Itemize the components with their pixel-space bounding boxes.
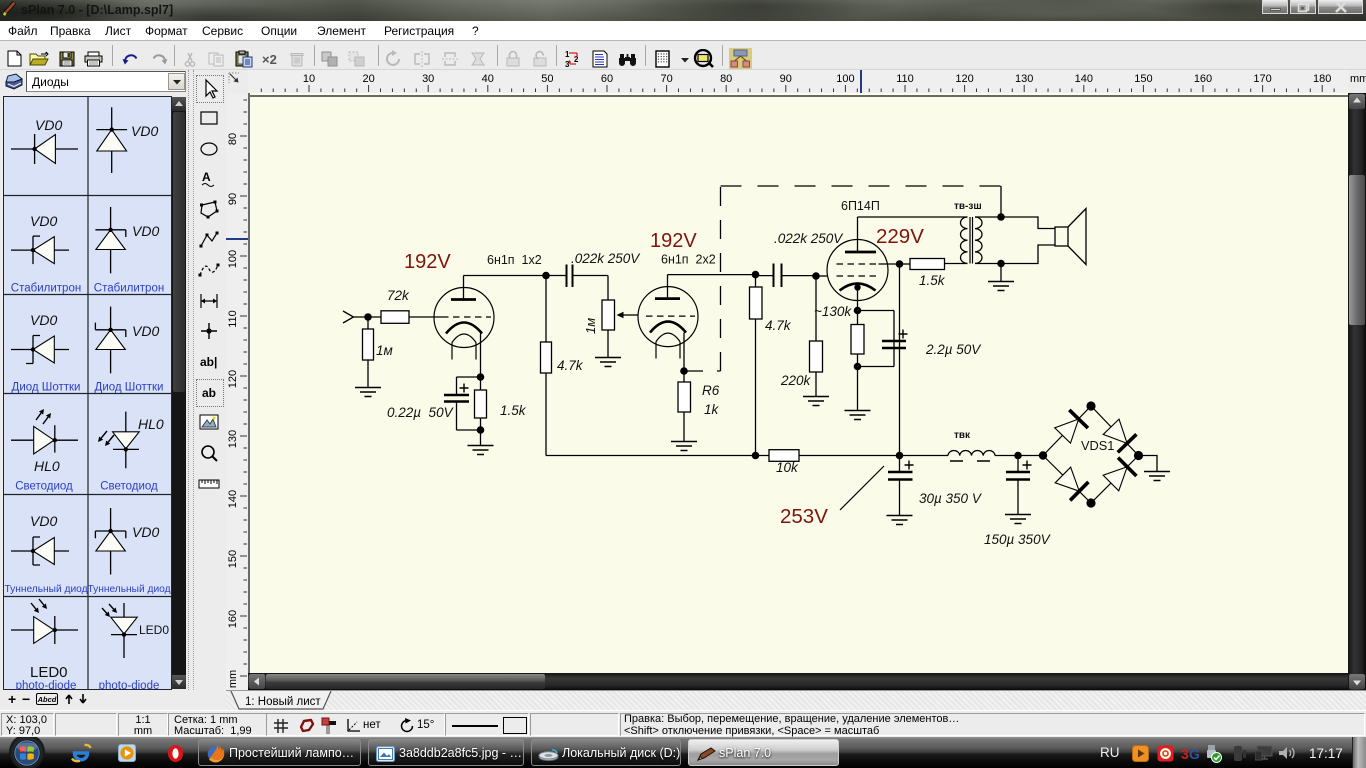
svg-text:220k: 220k — [780, 373, 812, 388]
panel bottom buttons — [0, 690, 230, 710]
bridge vertex nodes — [1039, 451, 1047, 459]
menu bar — [0, 21, 1366, 41]
window buttons — [1262, 0, 1288, 14]
secondary top wire — [975, 217, 1055, 229]
wire 72k to V1 grid — [409, 316, 442, 318]
ground (R6) — [671, 442, 697, 451]
svg-text:VD0: VD0 — [132, 323, 159, 339]
svg-text:60: 60 — [601, 73, 613, 85]
node F (V2 cathode) — [680, 367, 688, 375]
resistor 1.5k (V1 cathode) — [480, 377, 482, 390]
svg-text:Светодиод: Светодиод — [100, 480, 158, 492]
wire V1 plate to node B — [464, 275, 547, 277]
canvas v-scrollbar — [1348, 93, 1366, 690]
svg-text:photo-diode: photo-diode — [99, 680, 160, 690]
svg-text:VD0: VD0 — [35, 117, 62, 133]
svg-text:HL0: HL0 — [138, 416, 164, 432]
transformer TV-3SH primary — [961, 217, 968, 263]
svg-text:160: 160 — [227, 610, 239, 628]
svg-text:VDS1: VDS1 — [1081, 438, 1114, 453]
svg-text:LED0: LED0 — [139, 623, 169, 637]
svg-text:Стабилитрон: Стабилитрон — [94, 282, 164, 294]
svg-text:HL0: HL0 — [34, 458, 60, 474]
svg-text:6н1п 1x2: 6н1п 1x2 — [487, 253, 542, 267]
book icon — [4, 73, 24, 92]
tool column — [194, 70, 226, 690]
svg-text:140: 140 — [227, 490, 239, 508]
node I (130k bottom / cap) — [854, 363, 862, 371]
svg-text:180: 180 — [1313, 73, 1331, 85]
ground (130k) — [845, 411, 871, 420]
svg-text:VD0: VD0 — [30, 213, 57, 229]
resistor 1.5k screen — [900, 263, 911, 265]
svg-text:4.7k: 4.7k — [765, 318, 792, 333]
resistor 4.7k (V2 plate load) — [755, 275, 757, 287]
title bar — [0, 0, 1366, 21]
component panel background — [0, 93, 190, 690]
svg-text:.022k 250V: .022k 250V — [571, 251, 641, 266]
svg-text:1: Новый лист: 1: Новый лист — [245, 696, 321, 708]
svg-text:6П14П: 6П14П — [841, 199, 880, 213]
row1 left: diode VD0 — [11, 117, 78, 164]
row4 right: LED vertical — [98, 412, 164, 493]
svg-text:1k: 1k — [704, 402, 720, 417]
svg-text:192V: 192V — [404, 251, 451, 273]
svg-text:140: 140 — [1075, 73, 1093, 85]
canvas h-scrollbar — [248, 673, 1348, 690]
tray — [1100, 745, 1120, 760]
svg-text:90: 90 — [227, 193, 239, 205]
ground (1M) — [355, 388, 381, 397]
svg-text:120: 120 — [227, 370, 239, 388]
capacitor 0.22u 50V plates — [444, 394, 469, 397]
status bar — [0, 710, 1366, 737]
row3 right: schottky vertical — [95, 307, 164, 394]
diode D3 (left-bottom) — [1054, 466, 1089, 501]
row2 right: zener vertical — [94, 207, 164, 294]
node H (cathode 130k top) — [854, 307, 862, 315]
svg-text:1.5k: 1.5k — [919, 273, 946, 288]
svg-text:72k: 72k — [387, 288, 410, 303]
resistor R6 1k — [683, 371, 685, 382]
ground (V1 cathode) — [468, 446, 494, 455]
secondary bottom wire — [975, 245, 1055, 264]
toolbar row — [0, 42, 1366, 70]
svg-text:30: 30 — [422, 73, 434, 85]
svg-text:150: 150 — [1134, 73, 1152, 85]
pencil icon — [2, 1, 17, 17]
svg-text:3: 3 — [1181, 746, 1189, 761]
svg-text:×2: ×2 — [262, 53, 277, 66]
schematic canvas — [248, 93, 1348, 673]
node J (screen/B+) — [896, 260, 904, 268]
svg-text:R6: R6 — [702, 383, 720, 398]
svg-text:Туннельный диод: Туннельный диод — [4, 584, 87, 595]
node A input — [364, 313, 372, 321]
svg-text:тв-зш: тв-зш — [954, 201, 982, 212]
svg-text:70: 70 — [660, 73, 672, 85]
toolbar icons — [7, 50, 23, 67]
feedback solid drop — [1000, 186, 1002, 217]
potentiometer 1M body — [602, 300, 615, 330]
pentode V3 6P14P — [827, 240, 888, 301]
svg-text:.022k 250V: .022k 250V — [774, 231, 844, 246]
diode D2 (top-right) — [1102, 418, 1137, 453]
speaker — [1055, 227, 1068, 246]
wire V2 plate to node E — [668, 274, 756, 276]
svg-text:150: 150 — [227, 550, 239, 568]
resistor 10k — [769, 450, 799, 462]
svg-text:G: G — [1189, 746, 1199, 761]
svg-text:Светодиод: Светодиод — [15, 480, 73, 492]
wire to ground — [480, 430, 482, 445]
tab row — [226, 690, 1366, 710]
ground (pot) — [595, 358, 621, 367]
node D (cathode RC bottom) — [477, 426, 485, 434]
svg-text:0.22µ 50V: 0.22µ 50V — [387, 405, 455, 420]
svg-text:VD0: VD0 — [30, 513, 57, 529]
node M (4.7k-2 bottom) — [752, 452, 760, 460]
bridge right to ground — [1139, 456, 1158, 472]
svg-text:80: 80 — [720, 73, 732, 85]
svg-text:150µ 350V: 150µ 350V — [984, 532, 1052, 547]
pot wiper arrow — [623, 314, 639, 316]
capacitor .022k coupling 1 — [566, 265, 568, 288]
svg-text:твк: твк — [954, 430, 971, 441]
cathode dot V3 — [854, 284, 860, 290]
ground (bridge) — [1144, 472, 1170, 481]
svg-text:VD0: VD0 — [132, 524, 159, 540]
node O (150u) — [1014, 452, 1022, 460]
pot to ground — [607, 330, 609, 357]
IE — [70, 743, 92, 763]
input terminal arrow — [343, 311, 354, 323]
svg-text:1м: 1м — [376, 343, 393, 358]
resistor 1M grid leak — [367, 317, 369, 329]
row5 left: tunnel diode — [4, 513, 87, 595]
V1 cathode lead — [480, 334, 482, 378]
svg-text:VD0: VD0 — [30, 312, 57, 328]
svg-text:Диод Шоттки: Диод Шоттки — [95, 381, 164, 393]
wire node C to cap 0.22u — [457, 376, 481, 378]
capacitor .022k coupling 2 — [773, 264, 775, 288]
row1 right: diode VD0 vertical — [96, 107, 158, 173]
resistor ~130k — [851, 325, 864, 355]
cap 150u 350V — [1017, 456, 1019, 473]
wire cap to pot — [607, 276, 609, 301]
diode D4 (bottom-right) — [1102, 458, 1137, 493]
wire input to R 72k — [354, 316, 382, 318]
svg-text:1м: 1м — [583, 318, 598, 334]
row3 left: schottky — [11, 312, 80, 393]
bridge frame — [1043, 406, 1139, 503]
panel header row — [0, 70, 1366, 93]
V2 cathode lead — [683, 333, 685, 371]
WMP — [118, 744, 136, 762]
wire cap bottom — [456, 402, 458, 431]
svg-text:4.7k: 4.7k — [557, 358, 584, 373]
node K (sec top / feedback) — [997, 213, 1005, 221]
resistor 72k (R input series) — [381, 311, 409, 324]
svg-text:Туннельный диод: Туннельный диод — [87, 584, 170, 595]
svg-text:120: 120 — [955, 73, 973, 85]
svg-text:1: 1 — [565, 50, 570, 59]
node L2 (sec bottom / gnd) — [997, 260, 1005, 268]
diode D1 (left-top) — [1053, 410, 1088, 445]
component cells — [3, 96, 172, 690]
ground (secondary) — [1000, 264, 1002, 282]
row6 left: photo-diode — [11, 599, 78, 692]
horizontal ruler — [248, 70, 1348, 93]
svg-text:VD0: VD0 — [132, 223, 159, 239]
row4 left: LED — [11, 409, 78, 492]
svg-text:ab|: ab| — [200, 355, 217, 369]
svg-text:10k: 10k — [776, 460, 799, 475]
start orb — [8, 737, 46, 768]
row6 right: photo-diode vertical — [99, 603, 170, 692]
svg-text:6н1п 2x2: 6н1п 2x2 — [661, 253, 716, 267]
node C (V1 cathode) — [477, 373, 485, 381]
svg-text:~130k: ~130k — [814, 304, 852, 319]
svg-text:ab: ab — [202, 386, 216, 400]
ground (150u) — [1005, 515, 1031, 524]
B+ riser wire — [899, 264, 901, 456]
combo Диоды — [26, 71, 186, 92]
B+ bus wire — [546, 455, 769, 457]
svg-text:photo-diode: photo-diode — [16, 680, 77, 690]
node B (V1 plate rail) — [542, 272, 550, 280]
transformer secondary — [975, 217, 982, 263]
svg-text:110: 110 — [896, 73, 914, 85]
svg-text:130: 130 — [227, 430, 239, 448]
node N (B+ filter) — [896, 452, 904, 460]
capacitor 2.2u plates — [882, 340, 906, 343]
paper — [248, 93, 1348, 673]
pointer line 253V — [840, 466, 884, 510]
svg-text:A: A — [202, 170, 211, 184]
svg-text:VD0: VD0 — [131, 123, 158, 139]
svg-text:20: 20 — [362, 73, 374, 85]
ruler corner — [226, 70, 248, 93]
vertical ruler — [226, 93, 248, 690]
taskbar — [0, 737, 1366, 768]
svg-text:90: 90 — [780, 73, 792, 85]
triode V2 6n1p — [638, 287, 698, 347]
svg-text:mm: mm — [227, 670, 239, 688]
svg-text:160: 160 — [1194, 73, 1212, 85]
resistor 4.7k (V1 plate load) — [545, 276, 547, 343]
wire plate to primary top — [858, 216, 968, 218]
svg-text:80: 80 — [227, 133, 239, 145]
cap 2.2u bypass loop — [858, 310, 895, 312]
row2 left: zener — [11, 213, 81, 294]
svg-text:40: 40 — [482, 73, 494, 85]
svg-text:Диод Шоттки: Диод Шоттки — [12, 381, 81, 393]
plus (2.2u) — [899, 330, 908, 339]
resistor 220k grid leak — [815, 276, 817, 341]
node G (V3 grid) — [812, 272, 820, 280]
svg-text:1.5k: 1.5k — [500, 403, 527, 418]
row5 right: tunnel vertical — [87, 508, 170, 595]
panel scrollbar — [172, 97, 186, 689]
svg-text:170: 170 — [1253, 73, 1271, 85]
svg-text:110: 110 — [227, 310, 239, 328]
svg-text:10: 10 — [303, 73, 315, 85]
task buttons — [198, 739, 361, 766]
choke TVK — [948, 451, 995, 456]
svg-text:130: 130 — [1015, 73, 1033, 85]
svg-text:192V: 192V — [650, 230, 697, 252]
svg-text:100: 100 — [836, 73, 854, 85]
Opera — [167, 744, 184, 763]
feedback dashed line — [684, 370, 721, 372]
svg-text:Стабилитрон: Стабилитрон — [11, 282, 81, 294]
svg-text:30µ 350 V: 30µ 350 V — [919, 491, 983, 506]
plus (0.22u) — [460, 384, 469, 393]
choke core bars — [950, 460, 963, 462]
cap 30u 350V — [899, 456, 901, 473]
triode V1 6n1p — [434, 288, 494, 348]
svg-text:2.2µ 50V: 2.2µ 50V — [925, 342, 982, 357]
svg-text:253V: 253V — [780, 505, 828, 528]
node E (V2 plate rail) — [752, 271, 760, 279]
svg-text:LED0: LED0 — [30, 664, 68, 681]
svg-text:229V: 229V — [876, 225, 924, 248]
svg-text:50: 50 — [541, 73, 553, 85]
wire 1M to ground — [367, 360, 369, 387]
ground (220k) — [803, 397, 829, 406]
transformer core — [969, 217, 971, 264]
tool buttons — [196, 75, 224, 103]
ground (30u) — [887, 516, 913, 525]
svg-text:100: 100 — [227, 250, 239, 268]
